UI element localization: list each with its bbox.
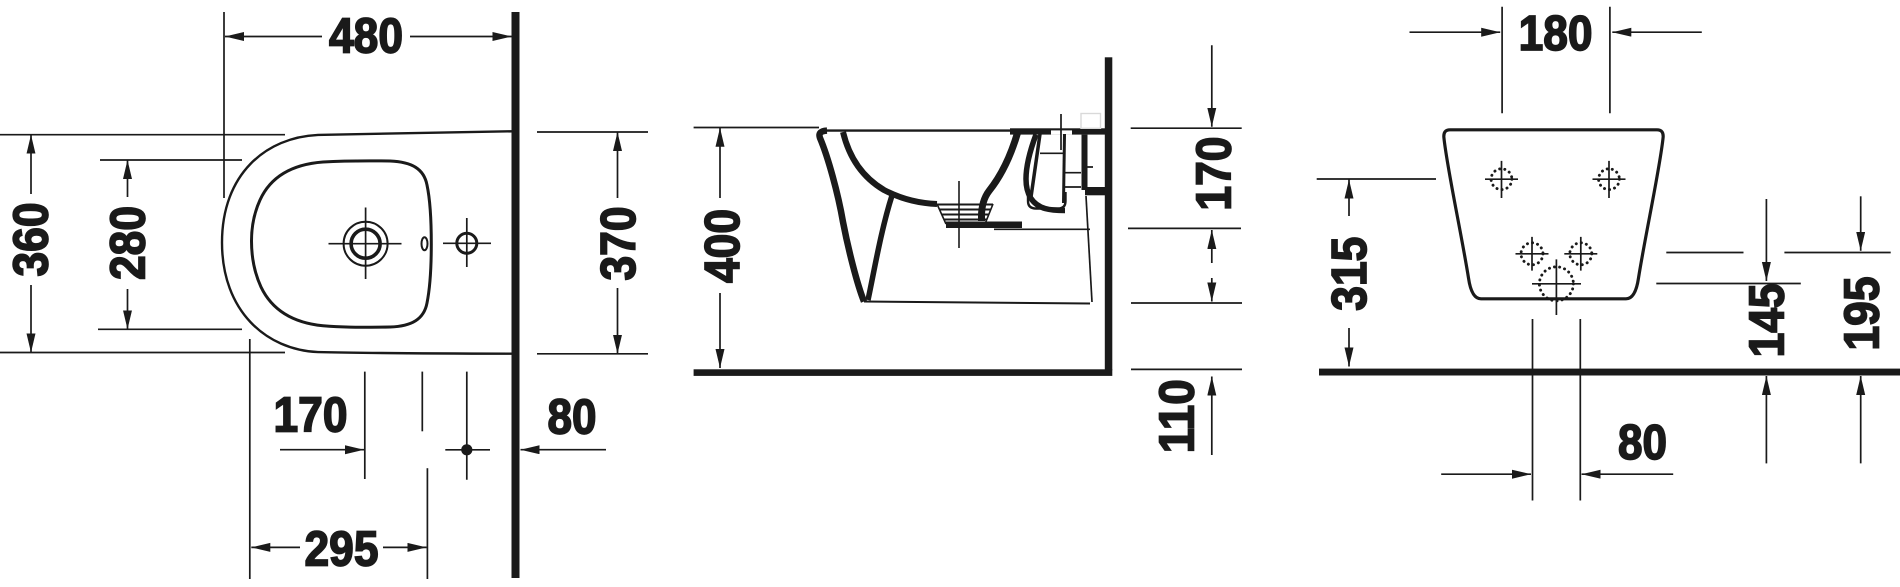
- dim 195 upper arrow: [1860, 196, 1862, 251]
- dim 170 leader: [280, 449, 364, 451]
- dim 180 extension lines: [1502, 7, 1610, 114]
- dim 170 upper arrow: [1211, 45, 1213, 127]
- drain circle: [1539, 267, 1573, 301]
- drain steps: [937, 204, 993, 206]
- body outline: [1444, 130, 1663, 299]
- dim 145 upper arrow: [1765, 199, 1767, 281]
- svg-text:295: 295: [305, 522, 379, 576]
- mid hole right: [1570, 243, 1592, 265]
- dim 295 line: [251, 546, 300, 548]
- fixing hole left: [1491, 169, 1512, 190]
- dim 280 line: [127, 160, 129, 197]
- bracket above deck: [1081, 114, 1101, 129]
- dim 480 extension line left: [223, 12, 225, 198]
- svg-text:80: 80: [1618, 416, 1667, 470]
- bidet inner rim: [252, 161, 432, 327]
- svg-text:170: 170: [1187, 137, 1241, 211]
- side hole crosshair: [443, 218, 491, 267]
- internal shelf line: [994, 228, 1090, 230]
- svg-text:280: 280: [101, 206, 155, 280]
- faucet crosshair: [329, 208, 402, 280]
- extension right for 295: [426, 468, 428, 579]
- dim 280 extension lines: [98, 160, 242, 329]
- overflow slot: [422, 237, 428, 250]
- dim 360 line: [30, 135, 32, 194]
- right ext line 3: [1131, 302, 1242, 304]
- front face: [819, 131, 864, 302]
- svg-text:480: 480: [329, 9, 403, 63]
- svg-text:110: 110: [1150, 379, 1204, 453]
- svg-text:195: 195: [1836, 277, 1890, 351]
- faucet hole outer circle: [344, 222, 388, 266]
- dim 145 extension line: [1656, 283, 1801, 285]
- bowl underside line: [868, 196, 892, 301]
- trap outer curve: [982, 133, 1018, 221]
- svg-text:170: 170: [274, 389, 348, 443]
- right ext line 2: [1128, 227, 1241, 229]
- extension from overflow slot down: [421, 372, 423, 432]
- hole extension lines below: [1533, 319, 1581, 501]
- floor line: [694, 369, 1113, 376]
- extension from faucet center down: [364, 372, 366, 479]
- dim 180 line: [1410, 31, 1501, 33]
- dim 315 line: [1348, 180, 1350, 217]
- bowl interior curve: [843, 132, 937, 204]
- wall section line: [512, 12, 520, 578]
- svg-text:80: 80: [548, 390, 597, 444]
- svg-text:370: 370: [592, 207, 646, 281]
- drain centerline: [958, 181, 960, 248]
- dim 370 extension lines: [537, 132, 648, 354]
- dim 145 lower arrow: [1765, 376, 1767, 463]
- svg-text:400: 400: [696, 209, 750, 283]
- dim 170 lower arrow: [1211, 230, 1213, 263]
- svg-text:180: 180: [1519, 7, 1593, 61]
- back slant line near wall: [1086, 196, 1092, 302]
- bidet outer outline: [222, 131, 512, 353]
- faucet hole inner circle: [351, 229, 380, 258]
- fixing hole right: [1599, 169, 1620, 190]
- deck thick line: [1010, 128, 1106, 134]
- svg-text:315: 315: [1323, 237, 1377, 311]
- dim 400 line: [719, 128, 721, 198]
- floor line: [1319, 369, 1900, 376]
- faucet centerline: [1060, 114, 1062, 150]
- top rim line: [826, 129, 1020, 131]
- dim 195 extension line: [1666, 252, 1890, 254]
- wall section line: [1105, 57, 1113, 370]
- dim 370 line: [617, 132, 619, 198]
- dim 80 leader: [521, 449, 607, 451]
- dim 360 extension lines: [0, 135, 285, 353]
- svg-text:360: 360: [4, 203, 58, 277]
- dim 110 upper arrow: [1211, 278, 1213, 302]
- extension hole2 down with dot: [466, 372, 468, 480]
- side hole circle: [457, 233, 477, 253]
- faucet shank: [1031, 134, 1040, 197]
- fixing block: [1082, 135, 1088, 190]
- svg-text:145: 145: [1740, 283, 1794, 357]
- dim 110 lower arrow: [1211, 377, 1213, 456]
- dim 315 extension line: [1317, 178, 1436, 180]
- dim 80 line: [1441, 473, 1531, 475]
- extension left for 295/170: [249, 339, 251, 579]
- dim 400 extension line: [694, 127, 819, 129]
- block ticks: [1065, 167, 1093, 187]
- right ext line 4 (floor): [1131, 368, 1242, 370]
- trap inner curve: [1026, 135, 1065, 211]
- bottom edge: [864, 302, 1090, 304]
- dim 480 line: [225, 36, 322, 38]
- mid hole left: [1521, 243, 1543, 265]
- right ext line 1 (top): [1131, 127, 1242, 129]
- dim 195 lower arrow: [1860, 376, 1862, 463]
